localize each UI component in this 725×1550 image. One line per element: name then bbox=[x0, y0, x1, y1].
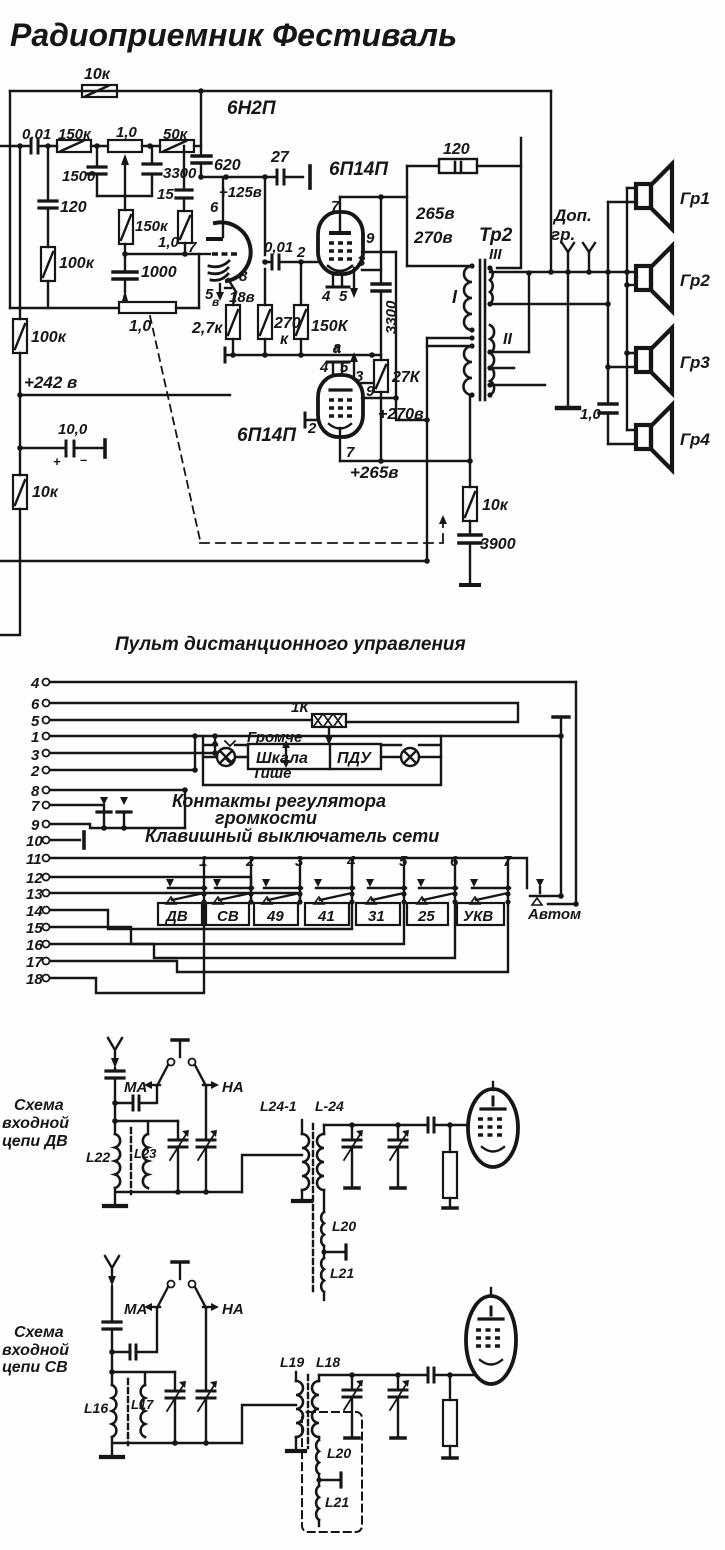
cathode arcs 6N2P bbox=[209, 261, 229, 280]
capacitor 120 bbox=[39, 146, 87, 247]
svg-text:МА: МА bbox=[124, 1301, 147, 1318]
primary top lead bbox=[407, 265, 472, 267]
svg-text:3900: 3900 bbox=[480, 536, 516, 553]
coil L19 bbox=[280, 1354, 304, 1449]
variable capacitor 3 DV bbox=[343, 1125, 363, 1188]
svg-text:L19: L19 bbox=[280, 1354, 304, 1370]
svg-text:НА: НА bbox=[222, 1301, 244, 1318]
capacitor 15 bbox=[157, 146, 192, 211]
bus a y355 bbox=[225, 354, 381, 356]
wire plate link y197 bbox=[340, 196, 407, 198]
dashed mechanical link horizontal bbox=[200, 520, 443, 543]
transformer Tr2 primary I lower bbox=[464, 346, 473, 395]
svg-text:12: 12 bbox=[26, 870, 43, 887]
wire plate bus drop x551 bbox=[550, 91, 552, 272]
avtom switch bbox=[530, 879, 579, 907]
svg-text:в: в bbox=[212, 295, 219, 309]
band switch unit 1 bbox=[166, 853, 207, 905]
svg-text:L17: L17 bbox=[131, 1397, 154, 1412]
svg-text:L18: L18 bbox=[316, 1354, 340, 1370]
ground L19 bbox=[287, 1449, 305, 1453]
wire to bandfilter SV bbox=[242, 1405, 296, 1443]
core dashed SV input bbox=[127, 1379, 129, 1445]
svg-text:1К: 1К bbox=[291, 699, 310, 716]
resistor 1,0 vertical bbox=[158, 211, 192, 254]
label -18v bbox=[225, 288, 255, 306]
potentiometer 1,0 treble bbox=[108, 124, 142, 152]
wire y1372 SV bbox=[112, 1372, 175, 1385]
arrow NA bbox=[203, 1079, 244, 1096]
svg-text:1,0: 1,0 bbox=[158, 234, 180, 251]
svg-text:Пульт дистанционного управле: Пульт дистанционного управления bbox=[115, 634, 466, 655]
resistor 150k mid vertical bbox=[119, 196, 169, 244]
loudspeaker Gr1 bbox=[636, 164, 672, 229]
wire plate riser x407 bbox=[406, 166, 408, 266]
capacitor 27 coupling bbox=[270, 149, 310, 188]
svg-text:6П14П: 6П14П bbox=[237, 425, 296, 446]
resistor 10k top bbox=[82, 66, 117, 97]
wire input row y146 bbox=[0, 145, 57, 147]
speaker leads Gr3 bbox=[608, 353, 636, 367]
svg-text:9: 9 bbox=[31, 817, 40, 834]
pin2 lead lower tube bbox=[307, 420, 317, 437]
band switch unit 3 bbox=[262, 853, 304, 905]
capacitor 1,0 speakers bbox=[599, 402, 617, 405]
node after cap bbox=[45, 143, 51, 149]
terminal bar x561 bbox=[553, 717, 569, 896]
resistor 150K grid2 bbox=[294, 262, 349, 355]
wire x521 drop to winding III bbox=[497, 138, 521, 268]
wire line4 drop bbox=[575, 682, 577, 904]
capacitor 3300 cathode bbox=[372, 197, 400, 355]
loudspeaker Gr2 bbox=[636, 246, 672, 311]
band switch unit 5 bbox=[366, 853, 408, 905]
svg-text:III: III bbox=[489, 246, 502, 263]
svg-text:УКВ: УКВ bbox=[463, 908, 493, 925]
svg-text:10к: 10к bbox=[32, 484, 59, 501]
wire bbox=[91, 145, 108, 147]
cathode arrow upper tube bbox=[350, 268, 358, 298]
variable capacitor 4 SV bbox=[389, 1375, 409, 1438]
coil L21 SV bbox=[316, 1486, 349, 1526]
svg-text:3: 3 bbox=[357, 253, 366, 270]
ground L24-1 bbox=[293, 1199, 311, 1203]
svg-text:L20: L20 bbox=[327, 1445, 351, 1461]
resistor grid DV bbox=[443, 1125, 457, 1208]
switch MA NA SV bbox=[157, 1262, 206, 1308]
pin3 lead lower tube bbox=[355, 368, 372, 385]
svg-text:0,01: 0,01 bbox=[264, 239, 293, 256]
capacitor 0,01 input bbox=[22, 126, 51, 153]
lamp box enclosure bbox=[203, 736, 441, 785]
svg-text:НА: НА bbox=[222, 1079, 244, 1096]
svg-text:2: 2 bbox=[30, 763, 40, 780]
svg-text:L16: L16 bbox=[84, 1400, 108, 1416]
svg-text:Тр2: Тр2 bbox=[479, 225, 513, 246]
wire plate stem 6N2P bbox=[222, 177, 224, 237]
variable capacitor 1 SV bbox=[166, 1372, 186, 1443]
svg-text:150К: 150К bbox=[311, 318, 349, 335]
svg-text:6Н2П: 6Н2П bbox=[227, 98, 276, 119]
coil L23 bbox=[134, 1134, 157, 1188]
core dashed DV input bbox=[130, 1128, 132, 1194]
wire to bandfilter DV bbox=[242, 1155, 302, 1192]
coil L24-1 bbox=[260, 1098, 309, 1199]
core dashed L19 L18 bbox=[307, 1375, 309, 1448]
wire top row SV filter bbox=[319, 1374, 476, 1376]
wire to 620 node bbox=[194, 145, 201, 147]
svg-text:6: 6 bbox=[210, 199, 219, 216]
svg-text:4: 4 bbox=[30, 675, 40, 692]
resistor 10k lower left bbox=[13, 475, 59, 509]
wire y1121 bbox=[115, 1121, 178, 1134]
svg-text:+270в: +270в bbox=[378, 406, 424, 423]
loudspeaker Gr4 bbox=[636, 405, 672, 470]
terminal 6 bbox=[31, 696, 518, 722]
resistor 100k lower left column bbox=[13, 319, 67, 353]
terminal 9 bbox=[31, 817, 104, 834]
arrowhead link bbox=[439, 515, 447, 524]
node input bbox=[17, 143, 23, 149]
terminal 10 bbox=[26, 832, 84, 850]
cathode arc upper tube bbox=[328, 266, 352, 271]
coil L18 bbox=[312, 1354, 340, 1440]
svg-text:L24-1: L24-1 bbox=[260, 1098, 297, 1114]
resistor 10k bias bbox=[463, 461, 509, 534]
svg-text:100к: 100к bbox=[59, 255, 95, 272]
dashed box L20 L21 SV bbox=[302, 1412, 362, 1532]
speaker leads Gr1 bbox=[608, 188, 636, 202]
primary bottom lead bbox=[470, 395, 472, 461]
wire arm to varcap2 SV bbox=[205, 1308, 207, 1391]
svg-text:+: + bbox=[53, 454, 61, 469]
transformer core bbox=[479, 260, 482, 400]
wire arm to varcap2 bbox=[205, 1086, 207, 1140]
wire top row DV filter bbox=[324, 1124, 468, 1126]
svg-text:2: 2 bbox=[307, 420, 317, 437]
arrow NA SV bbox=[203, 1301, 244, 1318]
svg-text:Схема: Схема bbox=[14, 1324, 64, 1341]
pin7 stem upper tube bbox=[331, 197, 340, 233]
variable capacitor 2 DV bbox=[197, 1130, 217, 1192]
svg-text:L23: L23 bbox=[134, 1146, 157, 1161]
svg-text:4: 4 bbox=[319, 359, 329, 376]
mains switch arrows bbox=[100, 797, 128, 805]
terminal 12 bbox=[26, 870, 251, 903]
svg-text:7: 7 bbox=[31, 798, 40, 815]
resistor 270k bbox=[258, 305, 301, 355]
capacitor 10,0 electrolytic bbox=[20, 421, 105, 469]
wiper arrow volume pot bbox=[122, 290, 128, 301]
svg-text:+125в: +125в bbox=[219, 184, 262, 201]
core dashed L24 bbox=[312, 1124, 314, 1295]
svg-text:120: 120 bbox=[60, 199, 87, 216]
svg-text:10: 10 bbox=[26, 833, 43, 850]
junction dots buses bbox=[548, 269, 554, 275]
capacitor link DV bbox=[115, 1086, 157, 1110]
svg-text:Гр3: Гр3 bbox=[680, 353, 710, 372]
svg-text:50к: 50к bbox=[163, 126, 189, 143]
capacitor 0,01 coupling2 bbox=[264, 239, 318, 269]
svg-text:7: 7 bbox=[331, 198, 340, 215]
coil L22 bbox=[86, 1134, 120, 1188]
resistor 1K remote bbox=[291, 699, 346, 727]
svg-text:11: 11 bbox=[26, 851, 42, 868]
svg-text:гр.: гр. bbox=[551, 225, 575, 244]
svg-text:3300: 3300 bbox=[163, 165, 197, 182]
switch MA NA DV bbox=[157, 1040, 206, 1086]
capacitor 3900 bbox=[459, 535, 516, 584]
winding II taps bbox=[490, 352, 545, 385]
wire speaker column x608 bbox=[607, 202, 609, 444]
svg-text:270: 270 bbox=[273, 315, 301, 332]
svg-text:620: 620 bbox=[214, 157, 241, 174]
svg-text:+242 в: +242 в bbox=[24, 373, 77, 392]
svg-text:Радиоприемник Фестиваль: Радиоприемник Фестиваль bbox=[10, 17, 457, 53]
resistor grid SV bbox=[443, 1375, 457, 1458]
tube 6N2P half envelope bbox=[215, 222, 251, 281]
svg-text:27К: 27К bbox=[391, 369, 421, 386]
svg-text:6: 6 bbox=[31, 696, 40, 713]
band switch unit 7 bbox=[470, 853, 512, 905]
cathode arrow lower tube bbox=[350, 352, 358, 378]
terminal 16 bbox=[26, 903, 455, 958]
svg-text:10к: 10к bbox=[482, 497, 509, 514]
svg-text:входной: входной bbox=[2, 1342, 69, 1359]
grid dash rows upper tube bbox=[329, 243, 352, 259]
wire top bus bbox=[10, 90, 551, 92]
coil L20 SV bbox=[316, 1440, 351, 1474]
anode bar lower tube bbox=[330, 388, 351, 391]
svg-text:13: 13 bbox=[26, 886, 43, 903]
contact arrows gromche tishe bbox=[225, 741, 235, 763]
pin7 grid lead 6N2P bbox=[188, 239, 210, 256]
terminal 8 bbox=[31, 783, 188, 828]
node bbox=[94, 143, 100, 149]
band label boxes bbox=[158, 903, 202, 925]
band switch unit 4 bbox=[314, 853, 356, 905]
coil L-24 bbox=[315, 1098, 344, 1212]
wire y254 tie bbox=[125, 254, 199, 308]
mains switch contacts bbox=[97, 812, 185, 831]
resistor 27K bbox=[374, 355, 421, 461]
capacitor antenna DV bbox=[106, 1068, 124, 1134]
grid dash rows lower tube bbox=[329, 400, 352, 416]
coil L16 bbox=[84, 1385, 116, 1437]
svg-text:8: 8 bbox=[239, 268, 248, 285]
node top bus junction bbox=[198, 88, 204, 94]
svg-text:150к: 150к bbox=[58, 126, 92, 143]
svg-text:7: 7 bbox=[346, 444, 355, 461]
terminal 5 bbox=[31, 713, 312, 730]
antenna Y dop2 bbox=[583, 243, 595, 272]
ground rail SV bbox=[112, 1437, 242, 1455]
svg-text:7: 7 bbox=[188, 239, 197, 256]
antenna DV bbox=[108, 1038, 122, 1068]
band switch unit 2 bbox=[213, 853, 255, 905]
wire speaker bus2 bbox=[490, 303, 608, 305]
terminal 3 bbox=[31, 747, 215, 764]
svg-text:1,0: 1,0 bbox=[129, 318, 151, 335]
wire +242 rail bbox=[20, 395, 318, 420]
anode bar upper tube bbox=[331, 231, 349, 235]
resistor 150k row bbox=[57, 126, 92, 152]
svg-text:Шкала: Шкала bbox=[256, 750, 308, 767]
terminal 7 bbox=[31, 798, 104, 815]
svg-text:+265в: +265в bbox=[350, 463, 399, 482]
primary junction dots bbox=[469, 263, 474, 268]
resistor 2,7k cathode bbox=[191, 292, 240, 355]
winding II bbox=[490, 325, 494, 395]
svg-text:1,0: 1,0 bbox=[116, 124, 138, 141]
tap L20 L21 bbox=[321, 1245, 346, 1259]
wire left frame vertical bbox=[9, 91, 11, 308]
svg-text:27: 27 bbox=[270, 149, 290, 166]
wire x201 plate column bbox=[200, 91, 202, 177]
svg-text:2,7к: 2,7к bbox=[191, 320, 223, 337]
ground drop x568 bbox=[567, 272, 569, 406]
terminal 17 bbox=[26, 903, 508, 972]
wire +265 rail bbox=[340, 460, 470, 462]
primary taps bbox=[427, 338, 472, 346]
wire grid column x265 bbox=[264, 177, 266, 305]
tube 6P14P upper envelope bbox=[318, 212, 363, 274]
pin7 stem lower tube bbox=[340, 428, 355, 461]
double arrow volume bbox=[282, 740, 290, 768]
capacitor series SV bbox=[428, 1368, 434, 1382]
arrow MA SV bbox=[124, 1301, 160, 1318]
transformer Tr2 primary I upper bbox=[464, 266, 472, 330]
svg-text:L20: L20 bbox=[332, 1218, 356, 1234]
svg-text:3: 3 bbox=[31, 747, 40, 764]
svg-text:Гр2: Гр2 bbox=[680, 271, 710, 290]
svg-text:3: 3 bbox=[355, 368, 364, 385]
arrow MA bbox=[124, 1079, 160, 1096]
cathode arc lower tube bbox=[329, 424, 351, 429]
terminal 15 bbox=[26, 903, 404, 944]
pins 4 5 lower tube bbox=[319, 359, 349, 376]
pin9 lead upper tube bbox=[362, 230, 396, 252]
svg-text:L22: L22 bbox=[86, 1149, 110, 1165]
ground bar bbox=[557, 406, 579, 411]
svg-text:ПДУ: ПДУ bbox=[337, 750, 372, 767]
capacitor 1000 bbox=[113, 244, 177, 292]
wire left column x20 down bbox=[0, 146, 20, 635]
ground rail DV bbox=[115, 1188, 242, 1204]
terminal 11 bbox=[26, 851, 527, 888]
wiper arrow pot 1,0 bbox=[121, 154, 129, 196]
svg-text:150к: 150к bbox=[135, 218, 169, 235]
resistor 50k row bbox=[160, 126, 194, 152]
winding III bbox=[490, 268, 493, 304]
svg-text:9: 9 bbox=[366, 230, 375, 247]
svg-text:265в: 265в bbox=[415, 204, 455, 223]
capacitor 120 feedback bbox=[407, 141, 521, 173]
svg-text:Автом: Автом bbox=[527, 906, 581, 923]
terminal 2 bbox=[30, 763, 195, 780]
potentiometer 1,0 volume bbox=[119, 302, 176, 335]
svg-text:5: 5 bbox=[339, 288, 348, 305]
svg-text:Доп.: Доп. bbox=[552, 206, 592, 225]
dial drive arrow bbox=[325, 727, 333, 745]
tube DV bbox=[468, 1082, 518, 1167]
dashed mechanical link diagonal bbox=[150, 316, 200, 540]
wire speaker column x627 bbox=[626, 188, 628, 430]
volume contact verticals bbox=[195, 736, 215, 770]
variable capacitor 2 SV bbox=[197, 1381, 217, 1443]
capacitor 1500 bbox=[62, 146, 106, 196]
screen grid riser x395 bbox=[362, 252, 427, 420]
svg-text:100к: 100к bbox=[31, 329, 67, 346]
pin8 lead 6N2P bbox=[228, 268, 248, 292]
antenna Y dop1 bbox=[562, 243, 574, 272]
variable capacitor 1 DV bbox=[169, 1121, 189, 1192]
pins 4 5 upper tube bbox=[321, 274, 349, 305]
svg-text:15: 15 bbox=[157, 186, 174, 203]
svg-text:а: а bbox=[333, 340, 341, 356]
svg-text:10,0: 10,0 bbox=[58, 421, 88, 438]
svg-text:18: 18 bbox=[26, 971, 43, 988]
terminal 14 bbox=[26, 903, 352, 929]
speaker leads Gr4 bbox=[608, 430, 636, 444]
capacitor 620 bbox=[192, 156, 241, 174]
scale box Shkala PDU bbox=[248, 744, 381, 769]
grid stopper bar tube2 lower bbox=[304, 413, 307, 427]
svg-text:25: 25 bbox=[417, 908, 435, 925]
svg-text:СВ: СВ bbox=[217, 908, 239, 925]
grid dashes 6N2P bbox=[212, 252, 237, 255]
wire y177 row bbox=[201, 176, 303, 178]
svg-text:1500: 1500 bbox=[62, 168, 96, 185]
lamp L2 bbox=[381, 748, 441, 766]
anode bar 6N2P bbox=[208, 237, 221, 241]
svg-text:1000: 1000 bbox=[141, 264, 177, 281]
svg-text:3300: 3300 bbox=[383, 300, 400, 334]
tube 6P14P lower envelope bbox=[318, 375, 363, 437]
node bbox=[122, 251, 128, 257]
terminal 4 bbox=[30, 675, 576, 692]
tube SV bbox=[466, 1288, 516, 1384]
capacitor series DV bbox=[428, 1118, 434, 1132]
wire bottom bus main bbox=[0, 560, 427, 562]
band switch unit 6 bbox=[417, 853, 459, 905]
loudspeaker Gr3 bbox=[636, 328, 672, 393]
svg-text:14: 14 bbox=[26, 903, 43, 920]
svg-text:31: 31 bbox=[368, 908, 385, 925]
svg-text:L21: L21 bbox=[325, 1494, 349, 1510]
terminal 13 bbox=[26, 886, 300, 903]
ground bar 3900 bbox=[461, 583, 479, 587]
svg-text:Тише: Тише bbox=[252, 765, 291, 782]
svg-text:Схема: Схема bbox=[14, 1097, 64, 1114]
wire bbox=[142, 145, 160, 147]
svg-text:цепи СВ: цепи СВ bbox=[2, 1359, 68, 1376]
svg-text:49: 49 bbox=[266, 908, 284, 925]
svg-text:5: 5 bbox=[31, 713, 40, 730]
terminal 1 bbox=[31, 729, 561, 746]
svg-text:цепи ДВ: цепи ДВ bbox=[2, 1133, 68, 1150]
node 10,0 bbox=[17, 445, 23, 451]
svg-text:МА: МА bbox=[124, 1079, 147, 1096]
variable capacitor 4 DV bbox=[389, 1125, 409, 1188]
svg-text:Клавишный выключатель сети: Клавишный выключатель сети bbox=[145, 826, 439, 846]
svg-text:ДВ: ДВ bbox=[164, 908, 188, 925]
speaker leads Gr2 bbox=[627, 284, 636, 286]
svg-text:17: 17 bbox=[26, 954, 43, 971]
pin3 lead upper tube bbox=[357, 253, 381, 270]
terminal 18 bbox=[26, 903, 204, 993]
svg-text:L21: L21 bbox=[330, 1265, 354, 1281]
